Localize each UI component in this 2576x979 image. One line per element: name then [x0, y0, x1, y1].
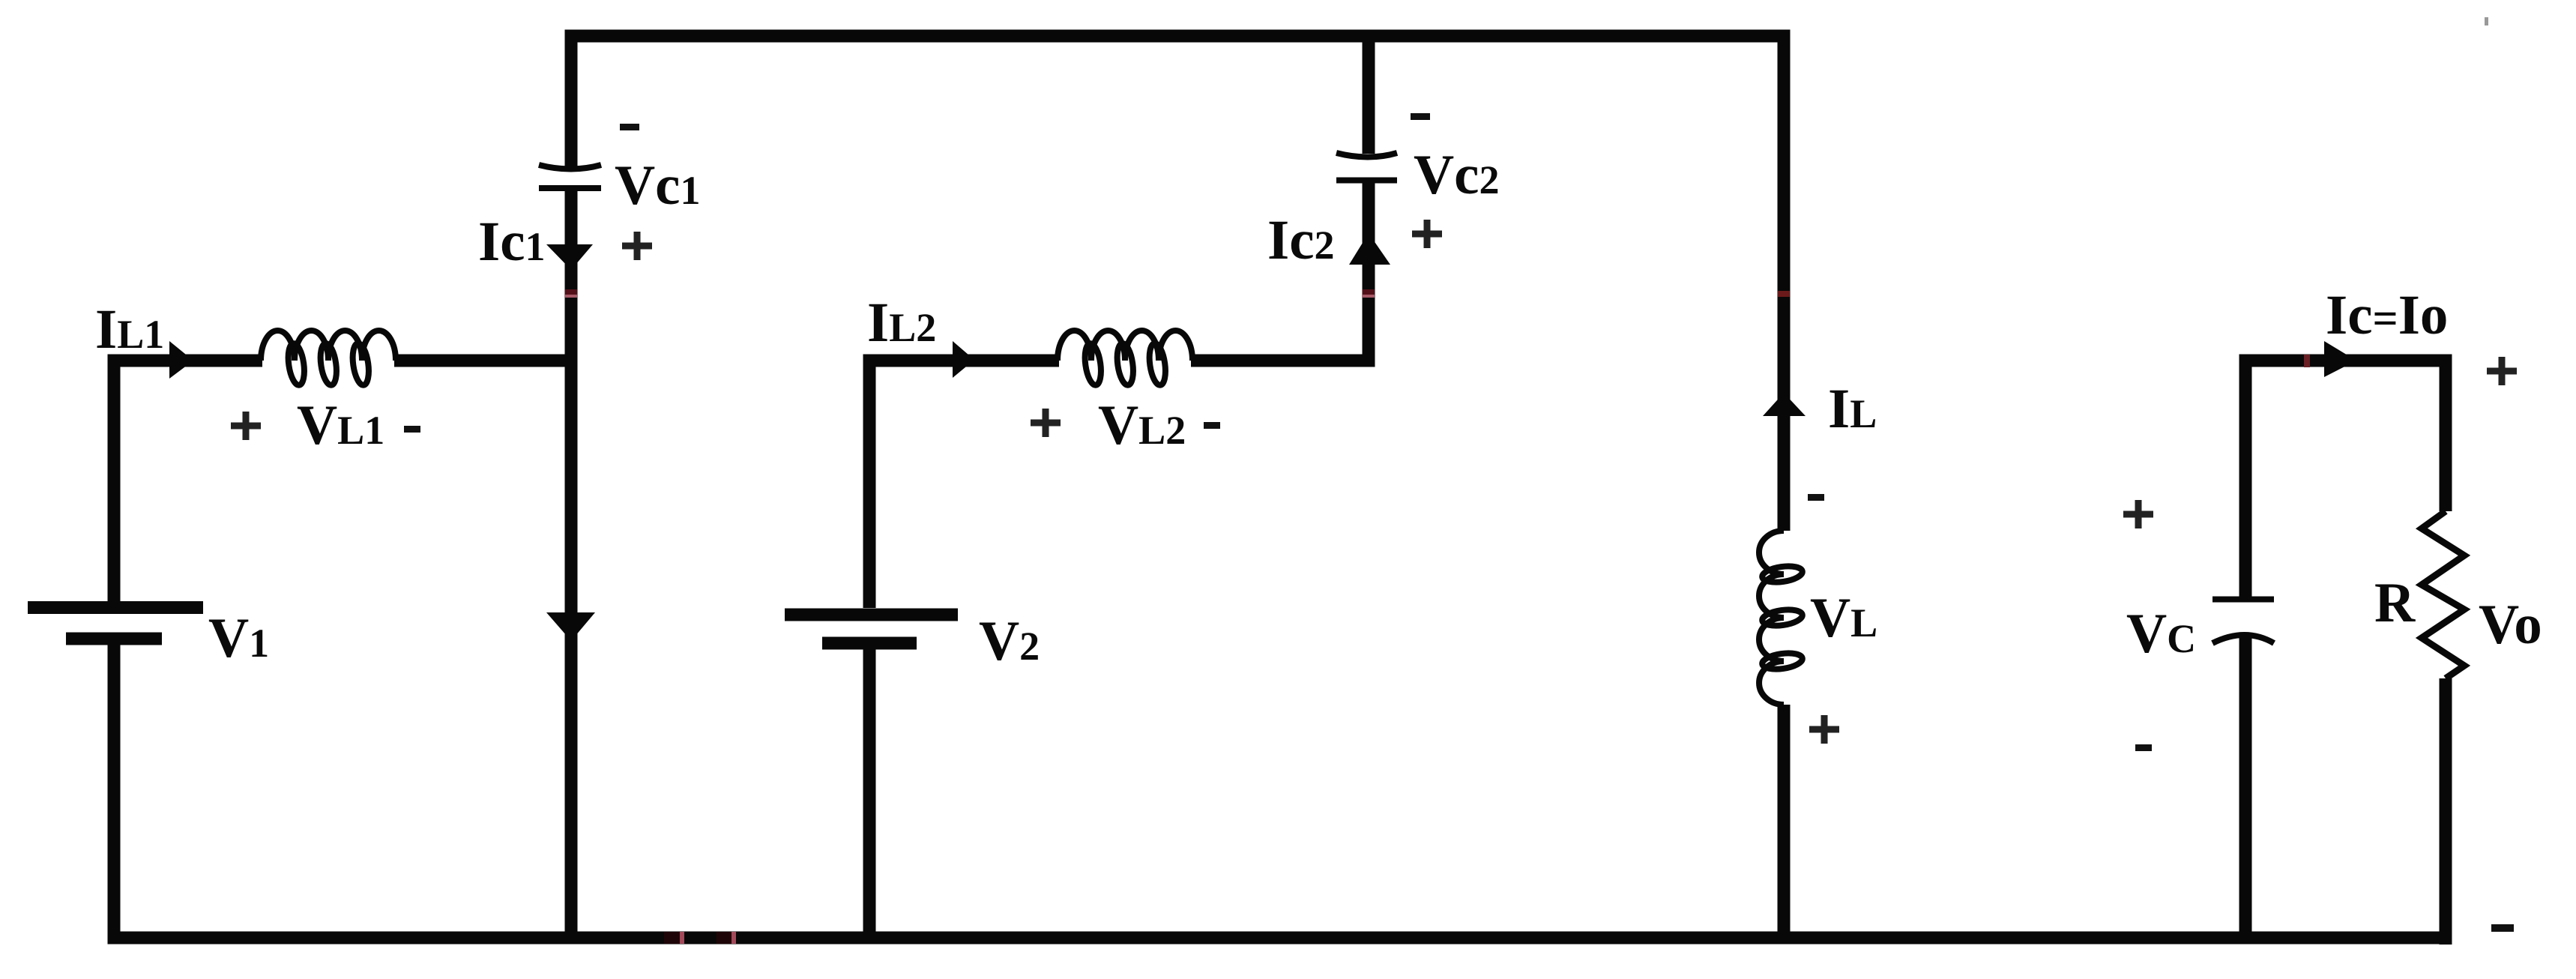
- wire C1 branch: [565, 30, 578, 939]
- label Vc1: [615, 154, 700, 217]
- label - VL1: [404, 426, 420, 433]
- arrow Ic1 current: [546, 244, 593, 270]
- label + VL: [1809, 715, 1839, 744]
- label IL: [1828, 378, 1877, 440]
- inductor L1: [261, 331, 396, 386]
- inductor L2: [1058, 331, 1192, 386]
- wire C2 branch: [1363, 30, 1375, 367]
- label + VL2: [1031, 409, 1061, 437]
- wire L1 horizontal: [108, 355, 578, 367]
- arrow Ic2 current up: [1349, 233, 1390, 265]
- label - Vc2: [1411, 113, 1430, 120]
- wire V1 left branch: [108, 355, 121, 939]
- node gray tick top right: [2485, 17, 2488, 25]
- wire VC branch: [2239, 355, 2252, 939]
- node red tick C2: [1363, 289, 1375, 298]
- label - VC: [2135, 744, 2152, 751]
- svg-text:Ic=Io: Ic=Io: [2326, 284, 2448, 346]
- wire L2 horizontal: [863, 355, 1375, 367]
- label IL2: [867, 292, 936, 354]
- wire output loop top: [2239, 355, 2452, 367]
- label VL2: [1098, 394, 1186, 457]
- label VC: [2126, 603, 2196, 665]
- node red tick C1: [565, 289, 577, 298]
- battery V1: [28, 608, 203, 639]
- arrow Ic=Io current: [2324, 341, 2356, 377]
- label - Vo bottom: [2491, 924, 2514, 932]
- arrow IL1 current: [169, 341, 193, 379]
- label + Vc2: [1412, 220, 1442, 248]
- label VL1: [297, 394, 384, 457]
- label + Vo top: [2487, 357, 2517, 385]
- wire L branch: [1778, 30, 1791, 939]
- label V2: [979, 610, 1040, 672]
- label - VL2: [1204, 422, 1220, 429]
- svg-text:Vo: Vo: [2479, 594, 2542, 656]
- label + VC: [2123, 500, 2153, 528]
- label + VL1: [231, 412, 261, 440]
- node red ticks bottom bus: [664, 932, 736, 944]
- svg-text:R: R: [2374, 572, 2416, 634]
- label - VL: [1808, 494, 1824, 501]
- wire R branch: [2440, 355, 2452, 945]
- arrow C1 branch down: [546, 612, 595, 641]
- label Ic2: [1267, 209, 1334, 271]
- label - Vc1: [620, 124, 639, 130]
- node red tick output wire: [2304, 355, 2310, 367]
- label R: [2374, 572, 2416, 634]
- label Vo: [2479, 594, 2542, 656]
- label VL: [1810, 587, 1877, 649]
- capacitor C2: [1336, 153, 1397, 181]
- capacitor C output: [2212, 600, 2274, 644]
- arrow IL current up: [1763, 393, 1806, 416]
- label IL1: [95, 298, 164, 361]
- arrow IL2 current: [953, 341, 974, 378]
- label V1: [208, 607, 269, 669]
- label Vc2: [1414, 144, 1499, 206]
- node red tick L branch: [1778, 291, 1790, 297]
- capacitor C1: [539, 165, 601, 188]
- label Ic1: [478, 211, 545, 273]
- label + Vc1: [622, 232, 652, 260]
- wire top bus: [565, 30, 1791, 43]
- inductor L vertical: [1759, 531, 1803, 705]
- label Ic=Io: [2326, 284, 2448, 346]
- wire bottom bus: [108, 932, 2452, 945]
- wire V2 branch: [863, 355, 876, 939]
- battery V2: [785, 615, 958, 643]
- resistor R: [2422, 511, 2464, 678]
